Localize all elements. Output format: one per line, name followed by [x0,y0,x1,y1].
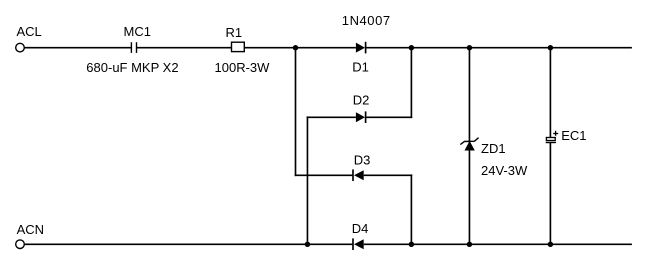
svg-text:D1: D1 [352,60,369,75]
svg-text:ZD1: ZD1 [481,141,506,156]
terminal ACL [16,43,25,52]
svg-text:D4: D4 [352,221,369,236]
junction top at EC1 [548,45,553,50]
junction bottom at x=411 [409,242,414,247]
terminal ACN [16,240,25,249]
svg-text:R1: R1 [226,25,243,40]
wire D4 to right end [364,243,632,245]
wire node A down to D3 rail [295,48,297,176]
wire EC1 top branch [549,48,551,138]
zener diode ZD1 [460,138,528,179]
svg-text:D2: D2 [353,93,370,108]
diode D1 [342,13,391,75]
wire MC1 to R1 [137,47,232,49]
wire ZD1 branch [468,48,470,245]
diode D2 [307,93,413,123]
diode D4 [352,221,369,250]
wire ACN to D4 [24,243,352,245]
svg-text:1N4007: 1N4007 [342,13,391,28]
junction node A top [293,45,298,50]
svg-text:D3: D3 [354,153,371,168]
diode D3 [295,153,413,181]
junction bottom at EC1 [548,242,553,247]
svg-text:EC1: EC1 [561,128,586,143]
wire D2 left down to bottom rail [306,116,308,244]
junction bottom at x=307 [305,242,310,247]
junction top at x=411 [409,45,414,50]
wire D3 right down to bottom rail [410,174,412,244]
svg-text:100R-3W: 100R-3W [215,60,271,75]
resistor R1 [215,25,271,75]
svg-text:680-uF MKP X2: 680-uF MKP X2 [86,60,178,75]
wire D1 to right end [366,47,632,49]
wire R1 to D1 [244,47,356,49]
node ACL [17,24,42,39]
wire EC1 bottom branch [549,143,551,245]
node ACN [17,222,44,237]
svg-text:ACL: ACL [17,24,42,39]
wire ACL to MC1 [24,47,131,49]
wire top junction down to D2 rail [410,48,412,118]
svg-text:24V-3W: 24V-3W [481,163,528,178]
junction bottom at ZD1 [467,242,472,247]
svg-text:ACN: ACN [17,222,44,237]
junction top at ZD1 [467,45,472,50]
capacitor MC1 [86,24,178,75]
svg-text:MC1: MC1 [124,24,151,39]
capacitor EC1 [546,128,587,143]
